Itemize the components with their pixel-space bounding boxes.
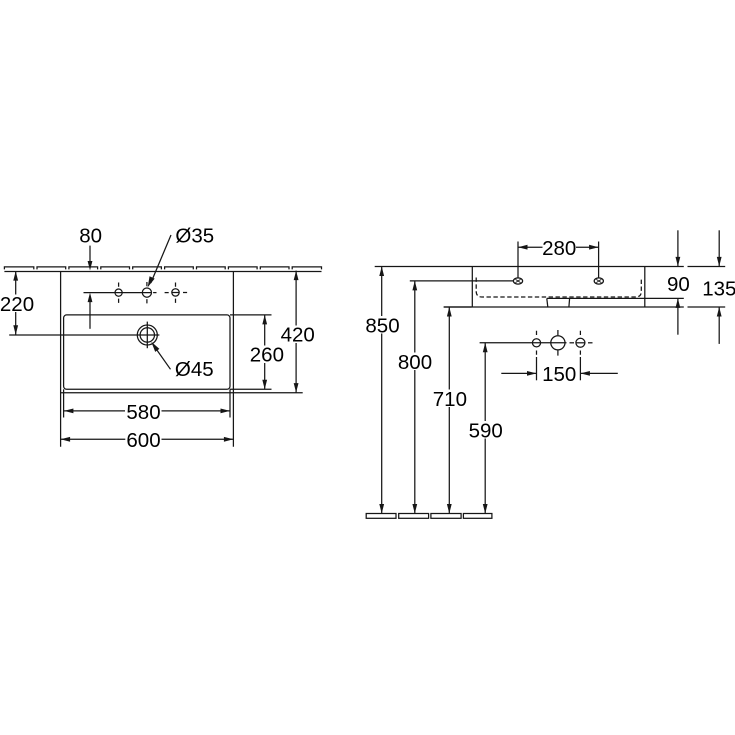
tap hole ellipse right (front view) bbox=[594, 278, 603, 284]
dimension 90 line lower tail bbox=[677, 298, 679, 334]
dimension 80 line lower tail bbox=[89, 300, 91, 329]
arrow leader diameter 35 bbox=[148, 276, 155, 287]
arrow dim 600 left bbox=[61, 437, 71, 442]
arrowheads bbox=[13, 245, 721, 514]
svg-text:220: 220 bbox=[0, 293, 34, 316]
arrow dim 800 up bbox=[412, 281, 417, 291]
fixing hole right bbox=[576, 338, 585, 347]
fixing hole middle bbox=[551, 336, 565, 350]
svg-text:580: 580 bbox=[126, 401, 160, 424]
svg-text:Ø45: Ø45 bbox=[175, 358, 214, 381]
arrow dim 260 up bbox=[262, 315, 267, 325]
extension line from bowl top edge bbox=[230, 314, 272, 316]
arrow dim 135 down bbox=[717, 257, 722, 267]
dimension 260 line bbox=[264, 315, 266, 389]
leader line diameter 35 bbox=[151, 235, 171, 283]
dimension 150 line bbox=[501, 372, 536, 374]
floor hatch band (front view) bbox=[366, 514, 492, 519]
dimension 280 line bbox=[518, 246, 543, 248]
svg-text:135: 135 bbox=[702, 278, 735, 301]
extension line below bowl left bbox=[63, 389, 65, 417]
arrow dim 220 down bbox=[13, 325, 18, 335]
dimension 420 line bbox=[295, 271, 297, 393]
inner bottom shelf line / extension for dim 90 bbox=[547, 297, 684, 299]
svg-text:710: 710 bbox=[433, 388, 467, 411]
dimension 580 line bbox=[64, 410, 125, 412]
dimension 850 line bbox=[381, 267, 383, 514]
arrow dim 80 up at tap line bbox=[88, 293, 93, 303]
dimension 710 line bbox=[448, 307, 450, 514]
arrow dim 280 right bbox=[589, 245, 599, 250]
svg-text:420: 420 bbox=[281, 324, 315, 347]
arrow dim 710 down bbox=[447, 504, 452, 514]
leader line diameter 45 bbox=[153, 345, 171, 370]
arrow dim 90 down bbox=[676, 257, 681, 267]
hidden inner bowl dashed outline (front view) bbox=[476, 277, 641, 297]
dimension 90 line upper bbox=[677, 230, 679, 266]
arrow dim 90 up bbox=[676, 298, 681, 308]
svg-text:150: 150 bbox=[542, 363, 576, 386]
dimension 80 line upper bbox=[89, 246, 91, 262]
svg-text:90: 90 bbox=[667, 273, 690, 296]
basin left edge (front view) bbox=[471, 267, 473, 308]
extension lines for dim 280 bbox=[517, 242, 519, 278]
tap hole right bbox=[172, 289, 179, 296]
svg-text:280: 280 bbox=[542, 237, 576, 260]
tap hole left bbox=[115, 289, 122, 296]
extension line for dim 800 (tap hole level) bbox=[410, 280, 514, 282]
tap hole centerline dashes bbox=[153, 292, 156, 294]
fixing hole left bbox=[532, 339, 540, 347]
arrow dim 220 up bbox=[13, 271, 18, 281]
svg-text:850: 850 bbox=[365, 314, 399, 337]
arrow dim 800 down bbox=[412, 504, 417, 514]
drain recess notch left bbox=[547, 298, 548, 307]
basin outer outline left edge (plan) bbox=[60, 271, 62, 447]
basin bottom line / extension (front view) bbox=[444, 306, 684, 308]
arrow dim 260 down bbox=[262, 380, 267, 390]
dimension 600 line bbox=[61, 438, 126, 440]
drain vertical centerline bbox=[146, 322, 148, 349]
extension line from bowl bottom edge bbox=[230, 388, 272, 390]
dimension 135 line upper bbox=[718, 230, 720, 266]
arrow dim 420 up bbox=[294, 271, 299, 281]
tap hole centerline solid segment bbox=[84, 292, 152, 294]
arrow dim 590 down bbox=[483, 504, 488, 514]
arrow dim 280 left bbox=[518, 245, 528, 250]
drain hole inner circle bbox=[140, 328, 154, 342]
arrow dim 135 up bbox=[717, 307, 722, 317]
arrow leader diameter 45 bbox=[151, 342, 159, 352]
basin inner bowl rounded rectangle (plan) bbox=[64, 315, 230, 389]
extension line for dim 710 bbox=[444, 306, 472, 308]
svg-text:600: 600 bbox=[126, 429, 160, 452]
drain hole outer circle (45 mm) bbox=[137, 325, 157, 345]
white backgrounds for labels placed on dimension lines bbox=[1, 275, 735, 439]
rim top line (front view) bbox=[375, 266, 684, 268]
arrow dim 850 up bbox=[379, 267, 384, 277]
extension lines for dim 150 bbox=[536, 357, 538, 380]
arrow dim 850 down bbox=[379, 504, 384, 514]
tap hole middle (35 mm) bbox=[142, 288, 151, 297]
arrow dim 590 up bbox=[483, 343, 488, 353]
arrow dim 150 left bbox=[527, 371, 537, 376]
svg-text:Ø35: Ø35 bbox=[175, 224, 214, 247]
svg-text:590: 590 bbox=[469, 420, 503, 443]
basin outer outline right edge (plan) bbox=[232, 271, 234, 447]
arrow dim 80 down at wall bbox=[88, 261, 93, 271]
tap hole ellipse left (front view) bbox=[513, 278, 522, 284]
basin outer outline bottom edge (plan) bbox=[61, 392, 303, 394]
dimension 135 line lower tail bbox=[718, 307, 720, 344]
arrow dim 580 right bbox=[221, 409, 231, 414]
drain horizontal centerline / extension to dim 220 bbox=[9, 334, 159, 336]
dimension 220 line bbox=[15, 271, 17, 335]
svg-text:800: 800 bbox=[398, 351, 432, 374]
arrow dim 150 right bbox=[580, 371, 590, 376]
dimension 800 line bbox=[414, 281, 416, 514]
arrow dim 420 down bbox=[294, 383, 299, 393]
arrow dim 710 up bbox=[447, 307, 452, 317]
dimension 590 line bbox=[484, 343, 486, 514]
arrow dim 600 right bbox=[224, 437, 234, 442]
svg-text:80: 80 bbox=[79, 224, 102, 247]
wall hatch band (plan view) bbox=[4, 267, 321, 272]
basin right edge (front view) bbox=[644, 267, 646, 308]
drain recess notch right bbox=[568, 298, 571, 307]
svg-text:260: 260 bbox=[250, 344, 284, 367]
fixing holes centerline / extension for dim 590 bbox=[480, 342, 567, 344]
arrow dim 580 left bbox=[64, 409, 74, 414]
dimension labels bbox=[0, 224, 735, 452]
extension line below bowl right bbox=[229, 389, 231, 417]
